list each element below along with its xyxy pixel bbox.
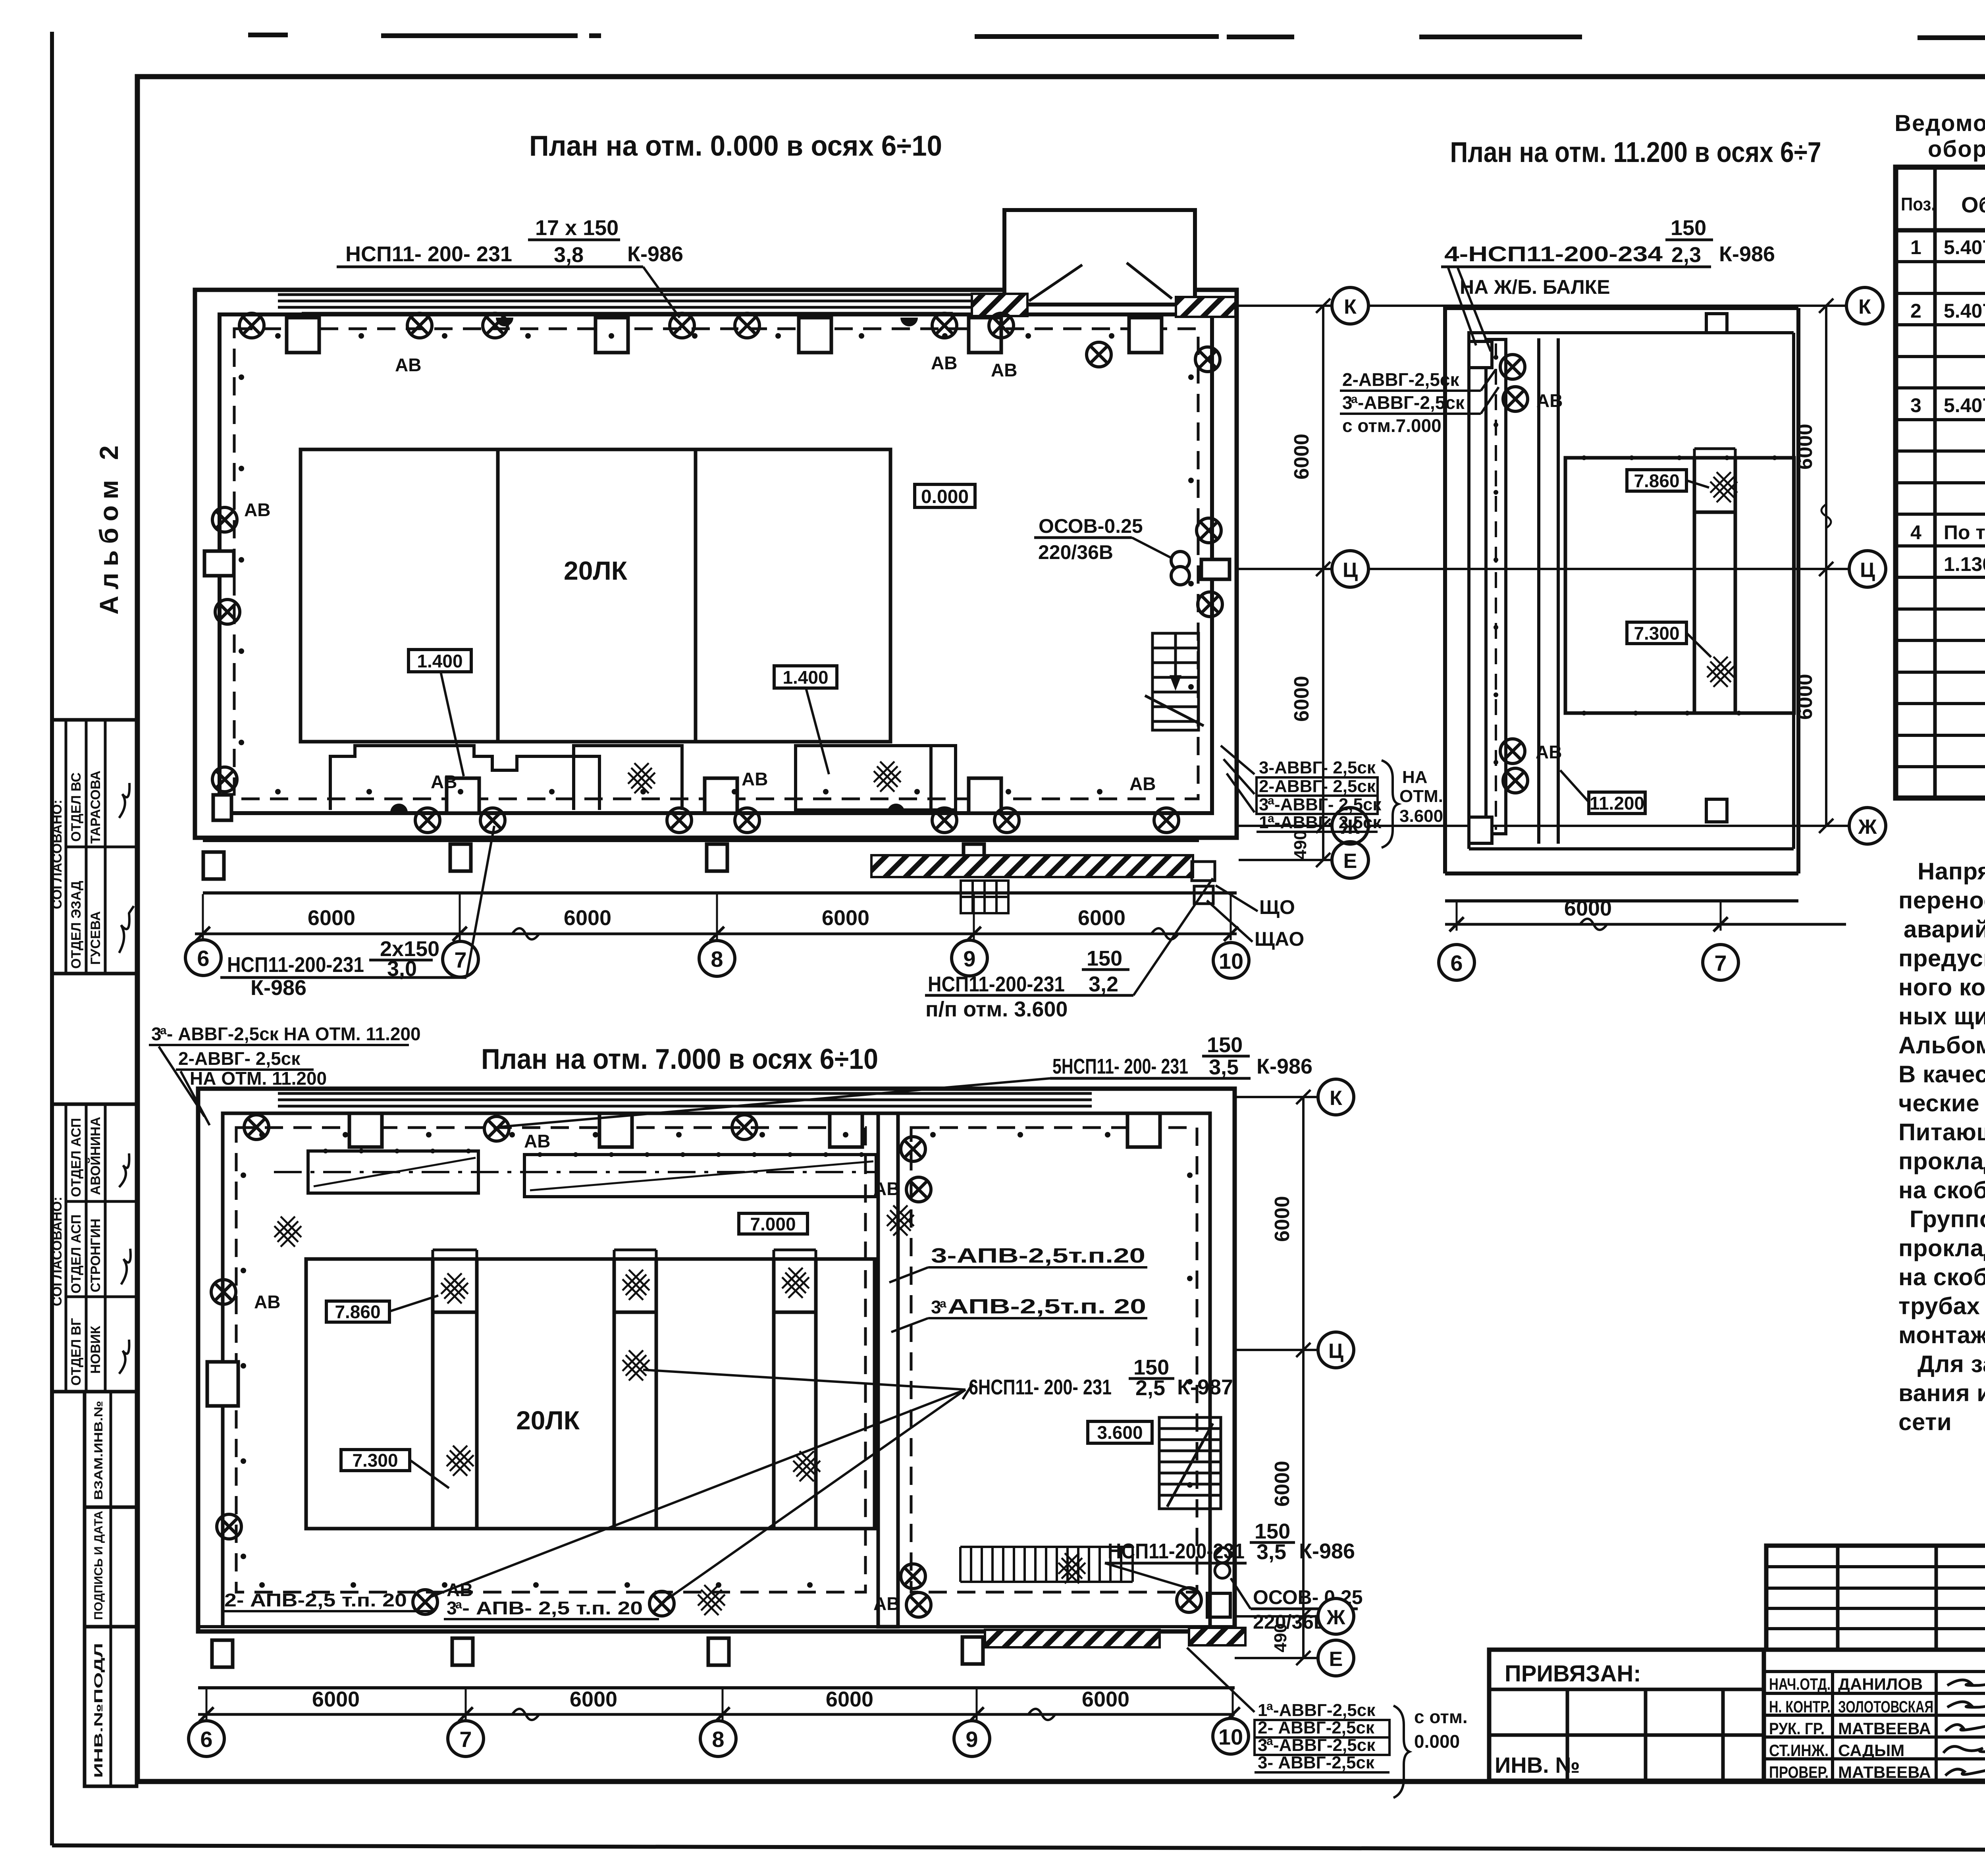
svg-text:3,2: 3,2 — [1089, 972, 1118, 996]
wall niche pockets top — [287, 318, 319, 353]
svg-text:Обозначение.: Обозначение. — [1961, 192, 1985, 217]
svg-text:2: 2 — [1910, 300, 1921, 322]
cable stack labels right of plan1 — [1259, 758, 1382, 832]
filled semicircle marks on walls — [496, 318, 513, 326]
svg-text:ИНВ.№ПОДЛ: ИНВ.№ПОДЛ — [92, 1643, 105, 1778]
svg-text:3-АВВГ- 2,5ск: 3-АВВГ- 2,5ск — [1259, 758, 1376, 777]
svg-text:ПРИВЯЗАН:: ПРИВЯЗАН: — [1505, 1661, 1641, 1687]
plan2 beams with dash-dot axis — [274, 1151, 876, 1197]
sheet outer edge top (broken scan line) — [248, 35, 1985, 38]
privyazan table — [1489, 1650, 1764, 1781]
svg-text:6000: 6000 — [570, 1687, 617, 1711]
svg-text:НАЧ.ОТД.: НАЧ.ОТД. — [1769, 1675, 1831, 1693]
svg-text:0.000: 0.000 — [921, 486, 969, 507]
svg-text:ОТМ.: ОТМ. — [1399, 787, 1443, 806]
svg-text:СТРОНГИН: СТРОНГИН — [88, 1219, 103, 1292]
svg-text:3-АПВ-2,5т.п.20: 3-АПВ-2,5т.п.20 — [931, 1244, 1145, 1267]
svg-text:1.400: 1.400 — [417, 651, 463, 671]
svg-text:7: 7 — [454, 947, 466, 972]
svg-text:АВ: АВ — [931, 353, 957, 373]
label under axis 6 — [227, 937, 439, 1000]
svg-text:Н. КОНТР.: Н. КОНТР. — [1769, 1697, 1831, 1716]
svg-text:6000: 6000 — [826, 1687, 873, 1711]
top label НСП11-200-231 17x150/3,8 К-986 — [345, 216, 683, 267]
stairs plan1 — [1145, 633, 1204, 730]
АВ labels plan1 — [244, 353, 1156, 794]
svg-text:9: 9 — [966, 1727, 978, 1752]
svg-text:6000: 6000 — [1078, 906, 1125, 930]
svg-text:1: 1 — [1259, 813, 1268, 832]
hatch crosses plan2 — [441, 1273, 468, 1303]
svg-text:2-АВВГ- 2,5ск: 2-АВВГ- 2,5ск — [1259, 777, 1376, 796]
plan1/plan3 shared horizontal axes — [1239, 299, 1848, 867]
plan2 stairs right room — [1159, 1417, 1221, 1509]
lamps plan1 left wall — [212, 507, 237, 532]
lamps plan1 bottom row — [415, 808, 440, 833]
signatures in title block — [1943, 1678, 1985, 1776]
svg-text:8: 8 — [712, 1727, 724, 1752]
inner contour top/left/right — [223, 1113, 1210, 1627]
svg-text:ГУСЕВА: ГУСЕВА — [88, 911, 103, 965]
plan2 right mid labels АПВ — [931, 1244, 1146, 1318]
svg-text:7: 7 — [1714, 951, 1727, 976]
svg-text:Ж: Ж — [1858, 816, 1877, 839]
hatched ramp band plan1 — [871, 855, 1193, 877]
plan2 axis circles — [189, 1718, 1249, 1756]
svg-text:7: 7 — [459, 1727, 472, 1752]
junction dots plan1 — [239, 333, 1194, 794]
plan2 top-left labels — [151, 1024, 421, 1089]
svg-text:СОГЛАСОВАНО:: СОГЛАСОВАНО: — [50, 800, 65, 909]
window strip top wall — [278, 1091, 1092, 1111]
vzam inv box — [85, 1392, 137, 1507]
svg-text:АВ: АВ — [991, 360, 1017, 380]
svg-text:К-986: К-986 — [251, 976, 306, 1000]
plan2 bottom dimension line — [198, 1689, 1240, 1722]
7.300 box plan3 — [1627, 622, 1711, 657]
svg-text:Е: Е — [1343, 850, 1357, 873]
svg-text:АВОЙНИНА: АВОЙНИНА — [88, 1117, 103, 1195]
svg-text:АВ: АВ — [873, 1178, 900, 1199]
lamps plan1 top row — [239, 313, 264, 338]
svg-text:ОСОВ-0.25: ОСОВ-0.25 — [1039, 515, 1143, 537]
svg-text:По типу 5.407-91.: По типу 5.407-91. — [1944, 521, 1985, 544]
svg-text:СОГЛАСОВАНО:: СОГЛАСОВАНО: — [50, 1197, 65, 1306]
cable dashed loop main hall — [236, 1128, 865, 1592]
svg-text:11.200: 11.200 — [1590, 793, 1644, 814]
svg-text:НСП11- 200- 231: НСП11- 200- 231 — [345, 242, 512, 266]
svg-text:6000: 6000 — [1271, 1196, 1294, 1242]
svg-text:6000: 6000 — [564, 906, 611, 930]
svg-text:САДЫМ: САДЫМ — [1838, 1741, 1904, 1760]
svg-text:ОТДЕЛ ВГ: ОТДЕЛ ВГ — [69, 1318, 84, 1386]
outer wall contour — [195, 290, 1237, 838]
svg-text:К-986: К-986 — [1299, 1539, 1355, 1563]
svg-text:а: а — [455, 1598, 462, 1611]
svg-text:6000: 6000 — [1290, 676, 1313, 722]
svg-text:5НСП11- 200- 231: 5НСП11- 200- 231 — [1052, 1055, 1188, 1078]
svg-text:НСП11-200-231: НСП11-200-231 — [227, 953, 364, 977]
axis7 wall stubs — [1706, 314, 1727, 333]
top wall pockets — [349, 1113, 382, 1147]
svg-text:150: 150 — [1255, 1519, 1290, 1543]
svg-text:2-АВВГ- 2,5ск: 2-АВВГ- 2,5ск — [178, 1048, 301, 1069]
plan2 right axes — [1235, 1090, 1318, 1665]
svg-text:490: 490 — [1291, 830, 1310, 859]
svg-text:ТАРАСОВА: ТАРАСОВА — [88, 771, 103, 844]
plan1 bottom dimension line — [195, 894, 1238, 941]
inner lines — [1469, 333, 1794, 849]
svg-text:150: 150 — [1133, 1355, 1169, 1379]
svg-text:АВ: АВ — [1129, 773, 1156, 794]
approval table 1 — [52, 720, 137, 974]
svg-text:20ЛК: 20ЛК — [516, 1406, 580, 1435]
svg-text:7.000: 7.000 — [750, 1214, 796, 1234]
svg-text:АВ: АВ — [244, 499, 270, 520]
gallery line below — [1445, 899, 1798, 902]
partition wall — [878, 1113, 898, 1627]
svg-text:6000: 6000 — [1290, 434, 1313, 480]
upper middle empty grid — [1766, 1546, 1985, 1650]
sidebar signatures — [119, 783, 134, 1374]
svg-text:а: а — [1351, 393, 1358, 406]
plan3 top label — [1444, 216, 1775, 298]
3.600 box right room — [1088, 1421, 1152, 1443]
plan2 right label НСП11-200-231 3,5 К-986 — [1108, 1519, 1355, 1564]
1.400 level boxes with leaders — [409, 650, 471, 776]
svg-text:План на отм. 7.000 в осях: План на отм. 7.000 в осях 6÷10 — [481, 1043, 878, 1075]
svg-text:6000: 6000 — [1564, 897, 1612, 920]
svg-text:оборудования на плане располож: оборудования на плане расположения — [1928, 136, 1985, 162]
plan2 top right label 5НСП11-200-231 — [1052, 1033, 1312, 1079]
svg-text:5.407-91.1.40М4: 5.407-91.1.40М4 — [1944, 300, 1985, 322]
svg-text:ных щитков ЩО и ЩАО (см.: ных щитков ЩО и ЩАО (см. т.п. 901-3-267.… — [1898, 1003, 1985, 1030]
plan2 tanks rectangle with strips — [306, 1250, 875, 1529]
left wall niche — [204, 551, 234, 576]
svg-text:4-НСП11-200-234: 4-НСП11-200-234 — [1444, 242, 1663, 266]
svg-text:АВ: АВ — [524, 1131, 550, 1151]
svg-text:Питающие сети выполняются к: Питающие сети выполняются кабелем АВВГ, — [1898, 1119, 1985, 1145]
svg-text:АВ: АВ — [742, 769, 768, 789]
svg-text:Поз.: Поз. — [1901, 194, 1936, 214]
svg-text:АВ: АВ — [1536, 390, 1563, 411]
svg-text:20ЛК: 20ЛК — [564, 556, 628, 585]
svg-text:6000: 6000 — [1271, 1461, 1294, 1507]
cable run dashed loop — [234, 329, 1198, 799]
svg-text:6000: 6000 — [1082, 1687, 1129, 1711]
machines bottom group B — [796, 746, 956, 810]
svg-text:на скобах по стенам.: на скобах по стенам. — [1898, 1177, 1985, 1203]
svg-text:Ц: Ц — [1860, 559, 1875, 582]
svg-text:сети: сети — [1898, 1409, 1952, 1435]
svg-text:150: 150 — [1207, 1033, 1243, 1057]
svg-text:7.860: 7.860 — [1634, 470, 1679, 491]
svg-text:НОВИК: НОВИК — [88, 1326, 103, 1374]
plan3 bottom dim — [1445, 902, 1846, 931]
svg-text:а: а — [160, 1024, 167, 1037]
svg-text:Е: Е — [1329, 1648, 1343, 1671]
plan3 left labels — [1342, 369, 1465, 436]
svg-text:150: 150 — [1671, 216, 1706, 240]
svg-text:МАТВЕЕВА: МАТВЕЕВА — [1838, 1719, 1931, 1738]
ЩО ЩАО panels and labels — [1192, 862, 1258, 942]
svg-text:ного корпуса вводных зажимо: ного корпуса вводных зажимов осветитель- — [1898, 974, 1985, 1001]
svg-text:АВ: АВ — [1536, 742, 1562, 762]
plan2 gallery strip — [198, 1637, 1235, 1688]
svg-text:на скобах и проводом АПВ: на скобах и проводом АПВ в винипластовых — [1898, 1264, 1985, 1290]
svg-text:3,5: 3,5 — [1209, 1055, 1239, 1079]
svg-text:ЩАО: ЩАО — [1255, 928, 1304, 950]
svg-text:с отм.7.000: с отм.7.000 — [1342, 415, 1442, 436]
svg-text:3,8: 3,8 — [554, 243, 584, 267]
svg-text:1: 1 — [1258, 1701, 1267, 1720]
duct — [1486, 339, 1506, 834]
svg-text:1: 1 — [1910, 236, 1921, 258]
small square near corner lamp — [1207, 1593, 1230, 1617]
svg-text:К: К — [1344, 295, 1357, 318]
lamps plan1 right wall — [1195, 347, 1220, 372]
svg-text:АВ: АВ — [395, 355, 421, 375]
svg-text:Для зануления элементов эле: Для зануления элементов электрооборудо- — [1918, 1351, 1985, 1377]
svg-text:ОТДЕЛ ВС: ОТДЕЛ ВС — [69, 773, 84, 842]
svg-text:К: К — [1858, 295, 1871, 318]
svg-text:НА: НА — [1402, 767, 1428, 787]
svg-text:ПРОВЕР.: ПРОВЕР. — [1769, 1763, 1829, 1782]
svg-text:6000: 6000 — [312, 1687, 360, 1711]
svg-text:СТ.ИНЖ.: СТ.ИНЖ. — [1769, 1741, 1829, 1760]
svg-text:3.600: 3.600 — [1097, 1422, 1143, 1443]
svg-text:6000: 6000 — [308, 906, 355, 930]
svg-text:План на отм. 0.000 в осях: План на отм. 0.000 в осях 6÷10 — [529, 130, 942, 162]
svg-text:К: К — [1330, 1087, 1342, 1110]
svg-text:8: 8 — [711, 947, 723, 972]
svg-text:трубах по ограждению площад: трубах по ограждению площадок с защитой — [1898, 1293, 1985, 1319]
svg-text:с отм.: с отм. — [1414, 1706, 1468, 1727]
plan3 vertical dim — [1819, 299, 1833, 833]
7.000 box — [739, 1213, 807, 1234]
plan2 bottom-left labels АПВ — [224, 1590, 643, 1618]
svg-text:НСП11-200-231: НСП11-200-231 — [1108, 1539, 1245, 1563]
svg-text:К-986: К-986 — [1719, 242, 1775, 266]
svg-text:ОТДЕЛ АСП: ОТДЕЛ АСП — [69, 1215, 84, 1294]
svg-text:К-986: К-986 — [1257, 1055, 1312, 1078]
svg-text:2- АПВ-2,5 т.п. 20: 2- АПВ-2,5 т.п. 20 — [224, 1590, 407, 1610]
svg-text:ОТДЕЛ ЭЗАД: ОТДЕЛ ЭЗАД — [69, 881, 84, 969]
svg-text:490: 490 — [1271, 1623, 1290, 1652]
svg-text:вания используется нулевой: вания используется нулевой провод рабоче… — [1898, 1380, 1985, 1406]
svg-text:НА ОТМ. 11.200: НА ОТМ. 11.200 — [190, 1068, 327, 1089]
svg-text:ЩО: ЩО — [1259, 896, 1295, 918]
hatched wall pieces beside vent — [972, 294, 1027, 316]
sheet outer edge bottom — [52, 1845, 1985, 1851]
svg-text:ческие выключатели АП-50Б-3МТ: ческие выключатели АП-50Б-3МТ. — [1898, 1090, 1985, 1116]
7.860 box plan2 — [326, 1296, 438, 1322]
podpis data box — [85, 1507, 137, 1627]
svg-text:10: 10 — [1218, 1724, 1243, 1749]
svg-text:АВ: АВ — [873, 1593, 900, 1614]
svg-text:Ц: Ц — [1328, 1340, 1343, 1363]
svg-text:К-987: К-987 — [1177, 1375, 1233, 1399]
svg-text:Ведомость узлов установки элек: Ведомость узлов установки электрического — [1894, 110, 1985, 136]
svg-text:17 х 150: 17 х 150 — [535, 216, 619, 240]
plan3 right axis circles — [1846, 287, 1886, 844]
svg-text:6: 6 — [197, 946, 209, 971]
plan2 label 6НСП11-200-231 2,5 К-987 — [969, 1355, 1233, 1400]
names rows grid — [1764, 1650, 1985, 1781]
svg-text:а: а — [940, 1297, 946, 1310]
АВ labels plan2 — [254, 1131, 900, 1614]
svg-text:- АПВ- 2,5 т.п. 20: - АПВ- 2,5 т.п. 20 — [462, 1598, 643, 1618]
sheet outer edge left — [50, 32, 54, 1845]
outer contour — [198, 1089, 1235, 1631]
bottom double line — [198, 1625, 1235, 1628]
outlet circles right room — [1215, 1548, 1230, 1578]
plan2 bottom-right cable stack — [1258, 1700, 1376, 1772]
0.000 level box — [915, 484, 975, 507]
bottom wall niche pockets — [447, 778, 479, 813]
outer contour — [1445, 308, 1798, 873]
plan1 axis circles bottom — [185, 940, 1249, 978]
plan2 OSOV label right — [1253, 1586, 1363, 1633]
svg-text:9: 9 — [963, 946, 975, 971]
svg-text:1.400: 1.400 — [782, 667, 828, 688]
svg-text:150: 150 — [1087, 947, 1122, 970]
vent shaft rectangle on roof — [1004, 210, 1195, 305]
window strip top wall — [278, 292, 977, 313]
OSOV outlet label — [1034, 515, 1172, 563]
svg-text:Альбом 2: Альбом 2 — [94, 439, 123, 615]
svg-text:РУК. ГР.: РУК. ГР. — [1769, 1719, 1825, 1738]
metall platform railing comb — [960, 1547, 1133, 1582]
svg-text:- АВВГ-2,5ск НА ОТМ. 11.200: - АВВГ-2,5ск НА ОТМ. 11.200 — [167, 1024, 421, 1044]
svg-text:переносного - 36В. Питание с: переносного - 36В. Питание сетей рабочег… — [1898, 887, 1985, 914]
svg-text:6000: 6000 — [1794, 674, 1817, 720]
svg-text:3: 3 — [1259, 795, 1268, 814]
svg-text:0.000: 0.000 — [1414, 1731, 1460, 1752]
svg-text:ВЗАМ.ИНВ.№: ВЗАМ.ИНВ.№ — [92, 1401, 105, 1500]
svg-text:3.600: 3.600 — [1399, 806, 1443, 826]
cable dashed right room — [911, 1128, 1197, 1592]
svg-text:6: 6 — [200, 1727, 212, 1752]
svg-text:1.130М4: 1.130М4 — [1944, 553, 1985, 575]
svg-text:Ж: Ж — [1326, 1606, 1346, 1629]
tanks rectangle — [301, 449, 890, 742]
right wall niche at Ц axis — [1201, 559, 1230, 579]
svg-text:3: 3 — [1910, 394, 1921, 416]
7.300 box plan2 — [341, 1450, 449, 1488]
plan2 lamps — [244, 1115, 269, 1139]
svg-text:ПОДПИСЬ И ДАТА: ПОДПИСЬ И ДАТА — [92, 1511, 105, 1620]
svg-text:10: 10 — [1219, 949, 1243, 974]
svg-text:п/п отм. 3.600: п/п отм. 3.600 — [925, 997, 1068, 1021]
svg-text:АВ: АВ — [254, 1292, 280, 1312]
svg-text:4: 4 — [1910, 521, 1921, 544]
svg-text:К-986: К-986 — [627, 242, 683, 266]
svg-text:-АВВГ- 2,5ск: -АВВГ- 2,5ск — [1274, 795, 1382, 814]
svg-text:7.300: 7.300 — [352, 1450, 398, 1471]
svg-text:220/36В: 220/36В — [1038, 541, 1113, 563]
svg-text:В качестве групповых щитков: В качестве групповых щитков приняты авто… — [1898, 1061, 1985, 1087]
svg-text:ДАНИЛОВ: ДАНИЛОВ — [1838, 1675, 1923, 1693]
svg-text:Групповые сети выполнены ка: Групповые сети выполнены кабелем АВВГ, — [1910, 1206, 1985, 1232]
svg-text:ИНВ. №: ИНВ. № — [1495, 1753, 1580, 1778]
junction dots plan2 — [241, 1132, 1193, 1588]
svg-text:прокладываемым по стенам и: прокладываемым по стенам и перекрытиям — [1898, 1235, 1985, 1261]
svg-text:прокладываемым по кабельным: прокладываемым по кабельным конструкциям… — [1898, 1148, 1985, 1174]
svg-text:-АВВГ- 2,5ск: -АВВГ- 2,5ск — [1274, 813, 1382, 832]
svg-text:Альбом 6 , лист 30): Альбом 6 , лист 30) — [1898, 1032, 1985, 1059]
svg-text:6000: 6000 — [1794, 424, 1817, 470]
inner wall contour — [220, 314, 1212, 813]
svg-text:ОТДЕЛ АСП: ОТДЕЛ АСП — [69, 1118, 84, 1197]
hatch cross marks plan1 — [628, 763, 655, 793]
svg-text:5.407-77.1.320М4: 5.407-77.1.320М4 — [1944, 236, 1985, 258]
svg-text:МАТВЕЕВА: МАТВЕЕВА — [1838, 1763, 1931, 1782]
svg-text:ЗОЛОТОВСКАЯ: ЗОЛОТОВСКАЯ — [1838, 1697, 1933, 1716]
svg-text:-АВВГ-2,5ск: -АВВГ-2,5ск — [1358, 392, 1465, 413]
svg-text:План на отм. 11.200 в осях 6÷7: План на отм. 11.200 в осях 6÷7 — [1450, 137, 1821, 168]
label under axis 9 — [925, 947, 1122, 1021]
svg-text:НА Ж/Б. БАЛКЕ: НА Ж/Б. БАЛКЕ — [1460, 276, 1610, 298]
svg-text:6НСП11- 200- 231: 6НСП11- 200- 231 — [969, 1375, 1112, 1399]
svg-text:5.407- 65.60: 5.407- 65.60 — [1944, 394, 1985, 416]
svg-text:7.300: 7.300 — [1634, 623, 1679, 644]
svg-text:монтажным профилем.: монтажным профилем. — [1898, 1322, 1985, 1348]
junction dots plan3 — [1494, 355, 1777, 765]
11.200 box — [1560, 770, 1645, 814]
outlet double circles — [1171, 551, 1189, 585]
plan1 lower gallery strip — [203, 841, 1237, 893]
inner corridor wall — [1537, 338, 1540, 844]
svg-text:АВ: АВ — [431, 771, 457, 792]
grill mark — [961, 881, 1008, 913]
hatched bands plan2 bottom — [985, 1630, 1160, 1647]
svg-text:Напряжение сети общего осве: Напряжение сети общего освещения ~380/22… — [1918, 858, 1985, 885]
svg-text:6: 6 — [1450, 951, 1463, 976]
plan3 equipment rect — [1565, 449, 1794, 713]
svg-text:6000: 6000 — [822, 906, 869, 930]
niche left wall — [207, 1362, 238, 1406]
svg-text:2-АВВГ-2,5ск: 2-АВВГ-2,5ск — [1342, 369, 1459, 390]
svg-text:Ц: Ц — [1343, 559, 1358, 582]
svg-text:предусмотрено от осветительн: предусмотрено от осветительных сетей гла… — [1898, 945, 1985, 972]
svg-text:а: а — [1266, 1700, 1273, 1713]
svg-text:АПВ-2,5т.п. 20: АПВ-2,5т.п. 20 — [948, 1295, 1146, 1318]
inv no podl box — [85, 1627, 137, 1786]
svg-text:аварийного освещения блока: аварийного освещения блока микрофильтров — [1904, 916, 1985, 943]
plan3 lamps — [1500, 355, 1525, 379]
7.860 box plan3 — [1627, 470, 1709, 491]
svg-text:НСП11-200-231: НСП11-200-231 — [928, 972, 1065, 996]
svg-text:7.860: 7.860 — [335, 1301, 380, 1322]
approval table 2 — [52, 1104, 137, 1392]
machines bottom group A — [330, 746, 682, 810]
svg-text:-АВВГ-2,5ск: -АВВГ-2,5ск — [1273, 1701, 1376, 1720]
svg-text:2,3: 2,3 — [1671, 243, 1701, 267]
